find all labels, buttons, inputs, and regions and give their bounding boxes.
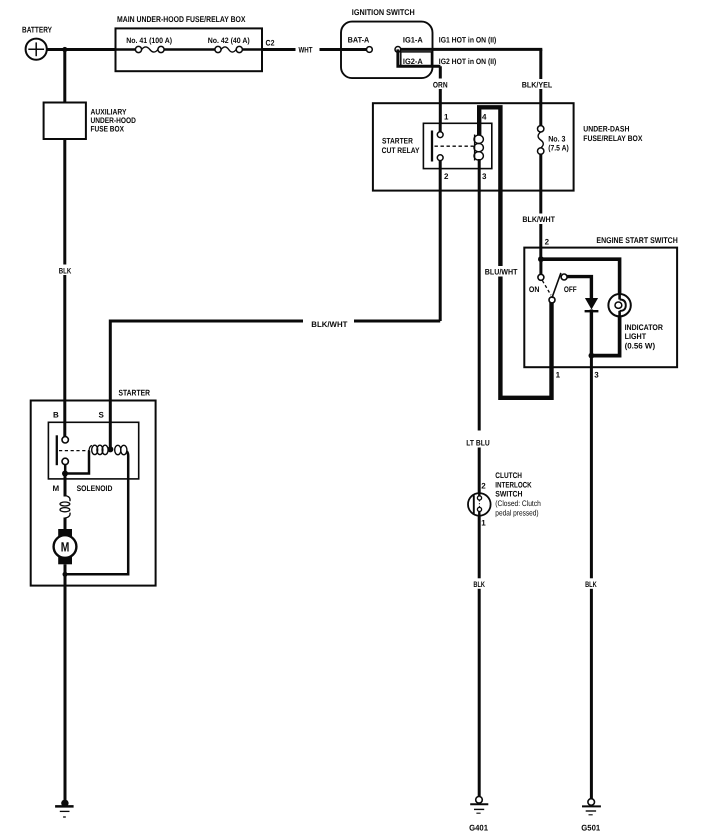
wire relay pin 1 stub (439, 123, 442, 132)
junction node M terminal (62, 471, 68, 477)
svg-text:STARTER: STARTER (119, 387, 151, 397)
pin 2 label engine start switch (545, 237, 550, 246)
svg-text:No. 3: No. 3 (548, 134, 566, 143)
terminal label S (99, 410, 105, 419)
pin 1 label (444, 112, 449, 121)
svg-text:BLK/YEL: BLK/YEL (522, 80, 553, 89)
svg-text:B: B (53, 410, 59, 419)
wire IG2 from IG1-A terminal to ORN (398, 49, 441, 66)
label SOLENOID (77, 484, 113, 493)
svg-text:2: 2 (444, 172, 449, 181)
svg-text:SOLENOID: SOLENOID (77, 484, 113, 493)
svg-text:INDICATOR: INDICATOR (625, 323, 663, 332)
ground G401 (469, 797, 488, 833)
svg-text:3: 3 (482, 172, 487, 181)
wire label BLK (battery to starter) (56, 265, 74, 276)
switch ON contact (538, 274, 544, 280)
field winding coil (60, 496, 70, 519)
svg-text:1: 1 (556, 371, 561, 380)
svg-text:CLUTCH: CLUTCH (495, 471, 522, 480)
main under-hood fuse/relay box (116, 14, 263, 71)
auxiliary under-hood fuse box (44, 103, 136, 140)
relay armature dashed link (435, 145, 474, 147)
svg-text:CUT RELAY: CUT RELAY (382, 146, 420, 155)
wire clutch switch to G401 (471, 515, 489, 796)
wire M junction to pull-in winding (65, 451, 89, 474)
svg-text:IG1-A: IG1-A (403, 35, 423, 44)
wire relay pin 3 down to clutch interlock switch (464, 159, 493, 493)
svg-text:G401: G401 (469, 823, 488, 832)
wire BLK aux fuse box down to starter B terminal (63, 139, 66, 437)
pin 3 label (482, 172, 487, 181)
solid arm OFF to pole (552, 273, 561, 298)
svg-text:4: 4 (482, 112, 487, 121)
svg-text:M: M (53, 484, 60, 493)
wire M terminal down to field winding (64, 474, 67, 497)
svg-text:No. 41 (100 A): No. 41 (100 A) (126, 36, 172, 45)
pin 4 label (482, 112, 487, 121)
svg-text:BLK: BLK (585, 580, 597, 589)
starter cut relay box (382, 123, 492, 168)
pin 1 label clutch switch (481, 518, 486, 527)
junction node pin 2 (538, 256, 544, 262)
wire field winding to motor (64, 518, 67, 530)
wire BLK/WHT fuse No.3 down to engine start switch pin 2 (520, 154, 558, 259)
svg-text:2: 2 (545, 237, 550, 246)
switch pole contact (549, 297, 555, 303)
junction node S terminal (107, 446, 113, 452)
junction battery node (62, 47, 67, 52)
fuse No. 3 (7.5 A) (538, 126, 570, 155)
fuse No. 41 (100 A) (126, 36, 172, 52)
svg-text:3: 3 (594, 371, 599, 380)
wire IG1 to BLK/YEL (401, 48, 543, 51)
svg-text:INTERLOCK: INTERLOCK (495, 480, 532, 489)
pin 2 label clutch switch (481, 482, 486, 491)
ignition switch body (341, 7, 433, 78)
svg-text:WHT: WHT (299, 46, 313, 55)
thick wire indicator light to junction (591, 316, 619, 356)
indicator light label (625, 323, 663, 351)
svg-text:LIGHT: LIGHT (625, 332, 647, 341)
svg-text:FUSE/RELAY BOX: FUSE/RELAY BOX (583, 134, 643, 143)
svg-text:IGNITION SWITCH: IGNITION SWITCH (352, 7, 415, 17)
svg-text:STARTER: STARTER (382, 137, 413, 146)
wire motor to bottom junction (64, 564, 67, 574)
svg-text:IG2 HOT in ON (II): IG2 HOT in ON (II) (439, 57, 497, 66)
svg-text:BLK/WHT: BLK/WHT (311, 320, 347, 329)
wire pin2 junction to ON contact (539, 259, 542, 274)
terminal IG1-A (395, 35, 423, 52)
battery BAT (22, 24, 52, 60)
svg-text:MAIN UNDER-HOOD FUSE/RELAY BOX: MAIN UNDER-HOOD FUSE/RELAY BOX (117, 14, 246, 24)
svg-text:FUSE BOX: FUSE BOX (91, 125, 125, 134)
relay coil (474, 135, 483, 161)
ground G501 (581, 799, 601, 833)
indicator light bulb (608, 294, 630, 316)
under-dash fuse/relay box (373, 103, 643, 190)
wire hold-in winding to motor bottom junction (65, 452, 128, 575)
svg-text:M: M (61, 539, 70, 554)
thick wire relay pin 4 BLU/WHT to engine start switch pin 1 (479, 107, 551, 398)
solenoid contact circles (62, 437, 68, 465)
wire relay pin 2 down (439, 161, 442, 322)
solenoid plunger dashed link (59, 450, 89, 452)
svg-text:1: 1 (481, 518, 486, 527)
svg-text:BLK/WHT: BLK/WHT (522, 215, 555, 224)
label IG2 HOT in ON (II) (439, 57, 497, 66)
label IG1 HOT in ON (II) (439, 35, 497, 44)
starter motor M (54, 529, 77, 564)
thick wire OFF contact to diode (567, 277, 591, 299)
switch OFF contact (561, 274, 567, 280)
terminal BAT-A (348, 35, 373, 52)
wire BLK/WHT relay pin 2 to starter S terminal (110, 316, 440, 450)
label OFF (564, 285, 577, 294)
pull-in winding (89, 445, 108, 454)
svg-text:2: 2 (481, 482, 486, 491)
wire BLK/YEL down to fuse No.3 (520, 49, 556, 125)
solenoid contact bar (56, 435, 58, 465)
svg-text:OFF: OFF (564, 285, 577, 294)
solenoid inner box (48, 422, 138, 479)
svg-text:(0.56 W): (0.56 W) (625, 342, 656, 351)
junction node motor ground (63, 572, 68, 577)
terminal label M (53, 484, 60, 493)
svg-text:pedal pressed): pedal pressed) (495, 508, 539, 517)
wire ORN down to relay pin 1 (430, 66, 451, 132)
svg-text:ENGINE START SWITCH: ENGINE START SWITCH (596, 235, 677, 245)
hold-in winding (115, 445, 127, 454)
ground chassis (starter) (55, 800, 74, 817)
junction node pin 3 (589, 353, 595, 359)
wire diode to junction (590, 310, 593, 356)
svg-text:BLK: BLK (59, 266, 72, 275)
relay contact circles (437, 132, 443, 161)
wire contact to M junction (64, 464, 67, 473)
connector label C2 (266, 38, 275, 47)
wire battery to main fuse box (44, 48, 116, 51)
svg-text:LT BLU: LT BLU (466, 438, 490, 447)
svg-text:No. 42 (40 A): No. 42 (40 A) (208, 36, 250, 45)
pin 1 label engine start switch (556, 371, 561, 380)
svg-text:(7.5 A): (7.5 A) (548, 144, 569, 153)
starter box (31, 387, 156, 585)
wire segments inside main box (116, 48, 263, 50)
fuse No. 42 (40 A) (208, 36, 250, 52)
wire starter to chassis ground (64, 574, 67, 800)
svg-text:1: 1 (444, 112, 449, 121)
svg-text:UNDER-DASH: UNDER-DASH (583, 125, 629, 134)
wire BLK battery junction down to aux fuse box (63, 50, 66, 103)
pin 3 label engine start switch (594, 371, 599, 380)
svg-text:SWITCH: SWITCH (495, 490, 522, 499)
engine start switch box (524, 235, 678, 367)
svg-text:G501: G501 (581, 823, 600, 832)
terminal label B (53, 410, 59, 419)
relay switch contact bar (431, 131, 433, 162)
svg-text:BAT-A: BAT-A (348, 35, 370, 44)
thick wire pin2 to indicator light (541, 259, 620, 294)
dashed arm ON to pole (542, 281, 551, 296)
svg-text:S: S (99, 410, 105, 419)
svg-text:ON: ON (529, 285, 540, 294)
svg-text:IG2-A: IG2-A (403, 57, 423, 66)
pin 2 label (444, 172, 449, 181)
svg-text:ORN: ORN (433, 80, 448, 89)
wire BLK engine switch pin 3 down to G501 (583, 356, 601, 799)
svg-text:IG1 HOT in ON (II): IG1 HOT in ON (II) (439, 35, 497, 44)
svg-text:BLU/WHT: BLU/WHT (485, 268, 518, 277)
svg-text:BATTERY: BATTERY (22, 24, 52, 34)
label ON (529, 285, 540, 294)
label LT BLU wire gap handled above; clutch interlock switch (468, 493, 491, 516)
clutch interlock switch label (495, 471, 541, 517)
wire WHT main box to ignition switch (262, 44, 367, 55)
svg-text:(Closed: Clutch: (Closed: Clutch (495, 499, 541, 508)
diode (585, 298, 599, 311)
svg-text:BLK: BLK (473, 580, 485, 589)
svg-text:C2: C2 (266, 38, 275, 47)
terminal box IG2-A (401, 52, 432, 66)
